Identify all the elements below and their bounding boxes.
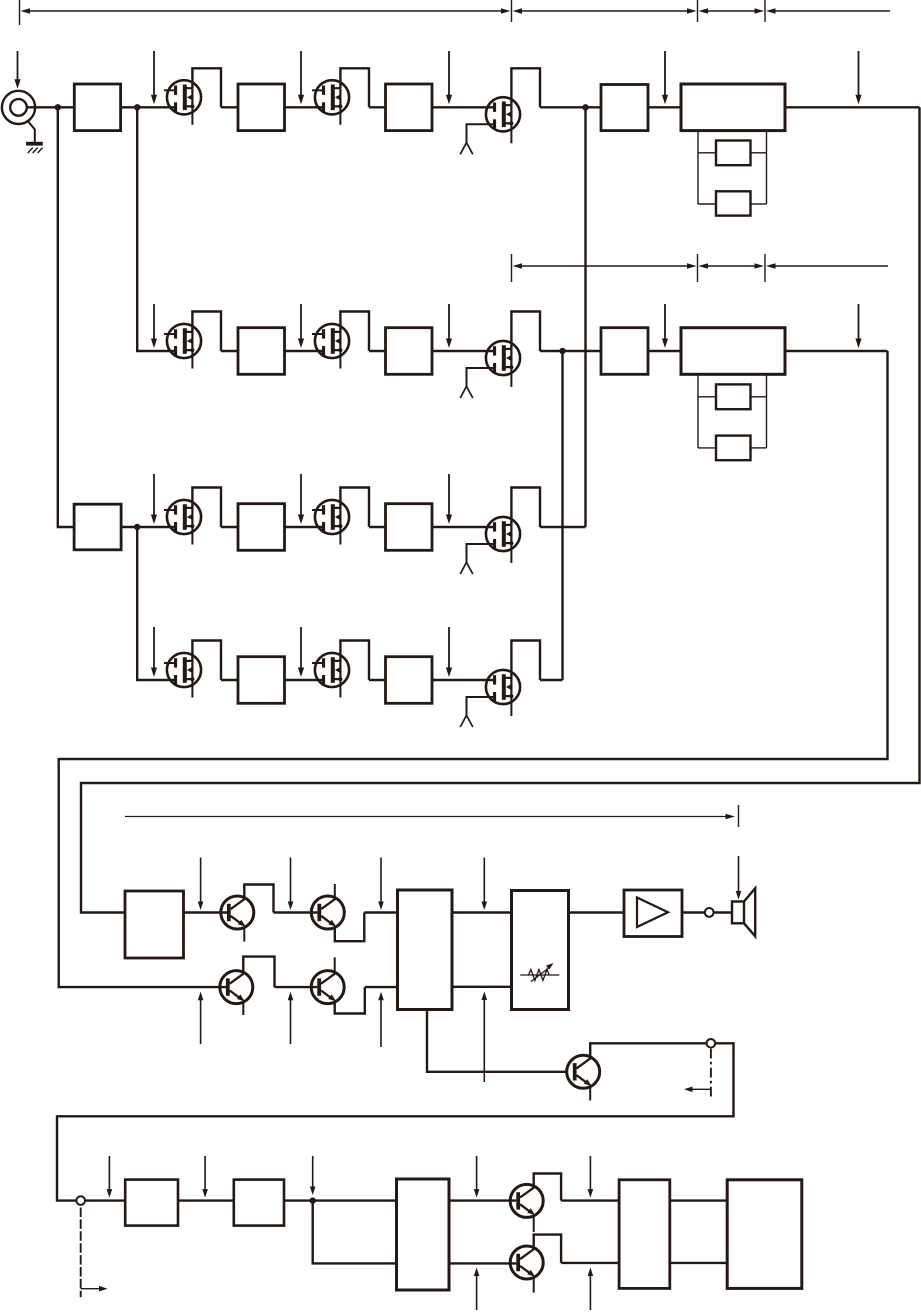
- transistor Q19 emitter stub: [533, 1279, 535, 1293]
- FET Q11 drain wire: [340, 641, 369, 681]
- wire node J1 down to row 3: [58, 107, 75, 527]
- wire F2 to block F3: [284, 1199, 397, 1201]
- signal flow arrow (detector output): [125, 814, 735, 819]
- local oscillator chevron row 1: [460, 143, 473, 155]
- transistor Q18 collector wire: [534, 1174, 561, 1201]
- block E1 (detector): [125, 891, 184, 958]
- FET Q1 gate-2 stub: [164, 89, 174, 91]
- wire B6 to tap: [751, 396, 767, 398]
- FET Q7 drain wire: [192, 488, 221, 528]
- FET Q2 source stub: [339, 106, 341, 125]
- arrow 1 audio upper: [198, 858, 204, 911]
- arrow 3 bottom: [310, 1156, 316, 1195]
- FET Q1 drain wire: [192, 68, 221, 107]
- FET Q7 source stub: [191, 526, 193, 545]
- wire Q2 to block A3: [369, 106, 386, 108]
- arrow 1 bottom: [107, 1156, 113, 1198]
- wire D2 to FET Q11: [285, 679, 323, 681]
- FET Q9 (mixer): [486, 517, 520, 551]
- block C1 (input filter): [74, 504, 121, 550]
- transistor Q19 collector wire: [534, 1235, 561, 1263]
- arrow into speaker: [736, 856, 742, 900]
- wire A5 to right edge: [785, 106, 920, 108]
- dimension line D1 tick 1: [19, 0, 21, 25]
- record jack contact: [76, 1196, 85, 1205]
- FET Q12 (mixer): [486, 670, 520, 704]
- local oscillator chevron row 4: [460, 715, 473, 727]
- block B4 (IF amp): [601, 328, 648, 375]
- wire Q5 to block B3: [369, 350, 386, 352]
- mixer Q6 drain wire: [511, 312, 540, 352]
- wire Q11 to block D3: [369, 679, 386, 681]
- FET Q4 source stub: [191, 350, 193, 369]
- node J4 junction dot: [559, 348, 565, 354]
- wire A1 to FET Q1: [121, 106, 175, 108]
- mixer Q12 drain wire: [511, 641, 540, 681]
- FET Q11 source stub: [339, 679, 341, 698]
- transistor Q14 (AF amp): [311, 896, 344, 929]
- jack 2 switch dash-dot: [710, 1049, 712, 1099]
- FET Q10 source stub: [191, 679, 193, 698]
- dimension line D1 segment 4: [766, 8, 890, 13]
- block C3 (bandpass filter): [386, 504, 433, 551]
- dimension line D2 tick 1: [511, 254, 513, 282]
- wire to block B6: [698, 396, 716, 398]
- wire node J5 down to row 4: [137, 527, 174, 680]
- arrow 3 audio lower: [378, 992, 384, 1047]
- block D2 (bandpass filter): [238, 657, 285, 704]
- wire antenna to block A1: [27, 106, 74, 108]
- FET Q8 source stub: [339, 526, 341, 545]
- wire Q8 to block C3: [369, 526, 386, 528]
- dimension line D1 tick 4: [764, 0, 766, 22]
- wire Q1 to block A2: [221, 106, 238, 108]
- block D3 (bandpass filter): [386, 657, 433, 704]
- wire F1 to block F2: [178, 1199, 234, 1201]
- block A5 (IF system): [681, 84, 785, 131]
- arrow 2 audio upper: [288, 858, 294, 911]
- FET Q7 (RF amp): [167, 500, 201, 534]
- transistor Q17 emitter stub: [589, 1088, 591, 1101]
- FET Q1 source stub: [191, 106, 193, 125]
- arrow 4 audio upper: [482, 858, 488, 911]
- wire F4 to F5 upper: [670, 1199, 727, 1201]
- FET Q5 gate-2 stub: [312, 333, 322, 335]
- transistor Q15 (AF amp): [220, 971, 253, 1004]
- dimension line D1 segment 3: [699, 8, 765, 13]
- block A4 (IF amp): [601, 85, 648, 131]
- wire Q7 to block C2: [221, 526, 238, 528]
- FET Q6 (mixer): [486, 341, 520, 375]
- arrow 4 row 1: [662, 51, 668, 104]
- dimension line D2 segment 1: [513, 263, 697, 268]
- block E3 (volume): [512, 891, 569, 1010]
- transistor Q18 (L ch amp): [510, 1184, 543, 1217]
- mixer Q3 source stub: [510, 123, 512, 143]
- earphone jack contact: [705, 908, 714, 917]
- mixer Q3 drain wire: [511, 68, 540, 107]
- wire jack to block F1: [85, 1199, 125, 1201]
- wire A4 to block A5: [648, 106, 681, 108]
- wire E1 to transistor Q13: [184, 911, 228, 913]
- wire Q18 to block F4: [561, 1199, 619, 1201]
- audio power amplifier U1: [624, 890, 682, 937]
- mixer Q3 local-osc stub: [467, 124, 494, 142]
- arrow 3 row 1: [446, 51, 452, 104]
- arrow 4 bottom lower: [474, 1268, 480, 1311]
- arrow 2 row 1: [298, 51, 304, 104]
- FET Q10 gate-2 stub: [164, 662, 174, 664]
- wire F3 to transistor Q19: [449, 1262, 516, 1264]
- FET Q11 gate-2 stub: [312, 662, 322, 664]
- block E2 (AF control): [398, 890, 453, 1010]
- ground: [26, 142, 43, 153]
- dimension line D1 tick 3: [697, 0, 699, 22]
- block F3 (stereo decoder): [397, 1179, 450, 1290]
- transistor Q18 emitter stub: [533, 1217, 535, 1232]
- arrow 1 row 2: [151, 304, 157, 348]
- block A7 (filter): [716, 191, 751, 215]
- arrow 5 bottom lower: [588, 1268, 594, 1311]
- node J1 junction dot: [55, 104, 61, 110]
- arrow 2 row 3: [298, 474, 304, 524]
- block B3 (bandpass filter): [386, 328, 433, 375]
- block F1: [125, 1180, 178, 1226]
- wire A2 to FET Q2: [285, 106, 323, 108]
- mixer Q9 source stub: [510, 543, 512, 563]
- arrow into antenna jack: [14, 51, 20, 89]
- volume control symbol: [520, 963, 559, 982]
- dimension line D2 segment 3: [766, 263, 888, 268]
- ground lead: [28, 121, 35, 143]
- arrow 2 bottom: [202, 1156, 208, 1198]
- arrow 5 row 1: [855, 51, 861, 104]
- transistor Q16 (AF amp): [311, 971, 344, 1004]
- local oscillator chevron row 3: [460, 562, 473, 574]
- arrow 4 row 2: [662, 304, 668, 348]
- arrow 1 audio lower: [198, 992, 204, 1044]
- wire amplifier to jack: [682, 911, 704, 913]
- wire jack to speaker: [714, 911, 732, 913]
- wire C3 to mixer Q9: [432, 526, 493, 528]
- loop tap right row 2: [766, 374, 768, 448]
- arrow 5 row 2: [855, 304, 861, 348]
- wire to block B7: [698, 447, 716, 449]
- arrow 3 row 2: [446, 304, 452, 348]
- block F2: [234, 1180, 284, 1226]
- dimension line D1 segment 1: [21, 8, 511, 13]
- dimension line D2 tick 3: [764, 254, 766, 282]
- wire C1 to FET Q7: [121, 526, 175, 528]
- block A6 (filter): [716, 141, 751, 166]
- record jack switch arrow: [81, 1286, 108, 1292]
- jack 2 switch arrow: [684, 1087, 711, 1093]
- transistor Q14 collector stub: [334, 884, 336, 897]
- FET Q5 (RF amp): [315, 324, 349, 358]
- arrow 4 audio lower: [482, 992, 488, 1083]
- wire row 1 IF output to audio: [81, 107, 920, 912]
- FET Q2 (RF amp): [315, 80, 349, 114]
- wire B4 to block B5: [648, 350, 681, 352]
- FET Q2 drain wire: [340, 68, 369, 107]
- FET Q5 drain wire: [340, 312, 369, 352]
- FET Q5 source stub: [339, 350, 341, 369]
- wire Q16 to block E2: [365, 986, 398, 988]
- node J6 junction dot: [310, 1197, 316, 1203]
- arrow 1 row 1: [151, 51, 157, 104]
- wire Q10 to block D2: [221, 679, 238, 681]
- block A3 (bandpass filter): [386, 84, 433, 131]
- wire F3 to transistor Q18: [449, 1199, 516, 1201]
- FET Q4 drain wire: [192, 312, 221, 352]
- block B5 (IF system): [681, 328, 785, 375]
- wire D3 to mixer Q12: [432, 679, 493, 681]
- wire E2 to E3 upper: [452, 911, 512, 913]
- transistor Q19 (R ch amp): [510, 1246, 543, 1279]
- wire Q13 to transistor Q14: [274, 911, 318, 913]
- block A2 (bandpass filter): [238, 84, 285, 131]
- wire J6 down to F3 lower input: [313, 1201, 397, 1264]
- loop tap right row 1: [766, 131, 768, 204]
- local oscillator chevron row 2: [460, 386, 473, 398]
- node J2 junction dot: [134, 104, 140, 110]
- mixer Q9 local-osc stub: [467, 544, 494, 562]
- transistor Q15 collector wire: [243, 957, 274, 988]
- wire A3 to mixer Q3: [432, 106, 493, 108]
- dimension line D2 segment 2: [699, 263, 765, 268]
- wire E3 to amplifier: [569, 911, 625, 913]
- wire Q19 to block F4: [561, 1262, 619, 1264]
- wire B5 to right drop: [785, 350, 888, 352]
- FET Q4 gate-2 stub: [164, 333, 174, 335]
- wire Q14 to block E2: [364, 911, 397, 913]
- FET Q2 gate-2 stub: [312, 89, 322, 91]
- transistor Q13 emitter stub: [243, 929, 245, 942]
- FET Q1 (RF amp): [167, 80, 201, 114]
- FET Q8 (RF amp): [315, 500, 349, 534]
- transistor Q16 emitter wire: [335, 987, 365, 1013]
- mixer Q9 drain wire: [511, 488, 540, 528]
- mixer Q12 local-osc stub: [467, 697, 494, 715]
- arrow 2 row 2: [298, 304, 304, 348]
- wire mixer row 3 output: [540, 526, 586, 528]
- arrow 3 row 4: [446, 627, 452, 677]
- wire E2 to E3 lower: [452, 986, 512, 988]
- mixer Q6 source stub: [510, 367, 512, 387]
- wire to block A7: [698, 203, 716, 205]
- mixer Q12 source stub: [510, 696, 512, 716]
- block C2 (bandpass filter): [238, 504, 285, 551]
- signal flow arrow tick: [738, 805, 740, 827]
- dimension line D1 segment 2: [513, 8, 697, 13]
- wire mixer row 4 output: [540, 679, 563, 681]
- wire row 2 IF output to audio: [59, 351, 888, 987]
- wire node J3 down to row 3: [584, 107, 586, 527]
- wire mixer to node J3: [540, 106, 601, 108]
- arrow 5 bottom upper: [588, 1156, 594, 1198]
- arrow 1 row 3: [151, 474, 157, 524]
- FET Q11 (RF amp): [315, 653, 349, 687]
- wire A7 to tap: [751, 203, 767, 205]
- block B6 (filter): [716, 384, 751, 409]
- wire C2 to FET Q8: [285, 526, 323, 528]
- block A1 (RF input filter): [74, 84, 120, 131]
- earphone jack 2 contact: [707, 1039, 716, 1048]
- wire mixer to node J4: [540, 350, 601, 352]
- wire E2 to transistor Q17: [427, 1010, 566, 1072]
- loop tap left row 2: [697, 374, 699, 448]
- FET Q10 (RF amp): [167, 653, 201, 687]
- transistor Q14 emitter wire: [335, 913, 365, 942]
- arrow 3 audio upper: [378, 858, 384, 911]
- mixer Q6 local-osc stub: [467, 368, 494, 386]
- wire B3 to mixer Q6: [432, 350, 493, 352]
- transistor Q16 collector stub: [334, 957, 336, 971]
- antenna jack J1: [2, 91, 35, 124]
- node J3 junction dot: [582, 104, 588, 110]
- dimension line D2 tick 2: [697, 254, 699, 282]
- wire Q4 to block B2: [221, 350, 238, 352]
- block B7 (filter): [716, 436, 751, 461]
- wire F4 to F5 lower: [670, 1262, 727, 1264]
- block F4: [619, 1180, 670, 1289]
- wire B7 to tap: [751, 447, 767, 449]
- wire A6 to tap: [751, 152, 767, 154]
- wire node J2 down to row 2: [137, 107, 174, 351]
- transistor Q13 (AF amp): [221, 896, 254, 929]
- wire Q15 to transistor Q16: [275, 986, 318, 988]
- wire node J4 down to row 4: [561, 351, 563, 680]
- arrow 2 row 4: [298, 627, 304, 677]
- record jack dash-dot: [80, 1208, 82, 1298]
- FET Q4 (RF amp): [167, 324, 201, 358]
- FET Q8 drain wire: [340, 488, 369, 528]
- transistor Q15 emitter stub: [242, 1003, 244, 1015]
- FET Q10 drain wire: [192, 641, 221, 681]
- FET Q8 gate-2 stub: [312, 509, 322, 511]
- wire to block A6: [698, 152, 716, 154]
- arrow 3 row 3: [446, 474, 452, 524]
- transistor Q17 collector wire: [590, 1043, 707, 1058]
- block B2 (bandpass filter): [238, 328, 285, 375]
- transistor Q17 (mute): [567, 1055, 600, 1088]
- node J5 junction dot: [134, 524, 140, 530]
- FET Q7 gate-2 stub: [164, 509, 174, 511]
- arrow 1 row 4: [151, 627, 157, 677]
- FET Q3 (mixer): [486, 97, 520, 131]
- wire jack 2 to record-out line: [57, 1043, 734, 1200]
- transistor Q13 collector wire: [244, 885, 273, 913]
- dimension line D1 tick 2: [511, 0, 513, 22]
- wire B2 to FET Q5: [285, 350, 323, 352]
- block F5 (output): [727, 1180, 802, 1289]
- arrow 2 audio lower: [288, 992, 294, 1044]
- speaker SP: [732, 888, 755, 936]
- arrow 4 bottom upper: [474, 1156, 480, 1198]
- loop tap left row 1: [697, 131, 699, 204]
